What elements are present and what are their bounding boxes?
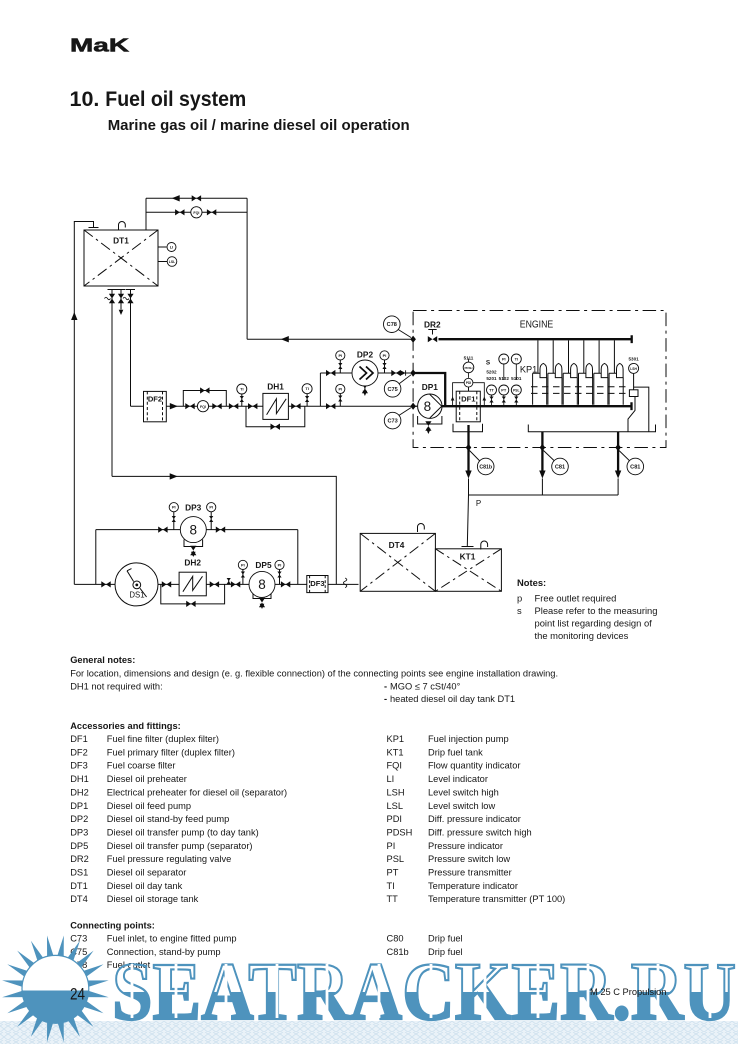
svg-text:DH2: DH2 [184,558,201,568]
svg-text:TI: TI [515,357,518,362]
svg-text:5201: 5201 [486,376,497,381]
svg-text:TI: TI [240,387,243,392]
svg-text:point list regarding design of: point list regarding design of [535,617,653,628]
svg-text:DH1 not required with:: DH1 not required with: [70,681,163,691]
svg-text:TI: TI [305,386,308,391]
svg-text:5101: 5101 [511,376,522,381]
svg-text:Diff. pressure indicator: Diff. pressure indicator [428,814,521,824]
svg-text:PI: PI [278,562,282,567]
svg-text:C81: C81 [630,465,640,471]
svg-text:DP1: DP1 [422,382,439,392]
svg-text:MaK: MaK [70,35,130,56]
svg-text:Temperature indicator: Temperature indicator [428,881,518,891]
svg-text:Drip fuel tank: Drip fuel tank [428,747,483,757]
svg-text:Fuel fine filter (duplex filte: Fuel fine filter (duplex filter) [107,734,219,744]
svg-text:-: - [384,694,387,704]
svg-text:TI: TI [387,881,395,891]
svg-text:C80: C80 [387,934,404,944]
svg-text:Diff. pressure switch high: Diff. pressure switch high [428,828,532,838]
svg-text:-: - [384,681,387,691]
svg-text:DP5: DP5 [70,841,88,851]
svg-text:PT: PT [387,868,399,878]
svg-text:C73: C73 [70,934,87,944]
svg-text:DT1: DT1 [70,881,88,891]
svg-text:PSL: PSL [387,854,405,864]
svg-text:ENGINE: ENGINE [520,320,554,331]
svg-text:Pressure transmitter: Pressure transmitter [428,868,512,878]
svg-text:DF1: DF1 [70,734,88,744]
svg-text:Connecting points:: Connecting points: [70,921,155,931]
svg-text:5102: 5102 [499,376,510,381]
svg-text:10.Fuel oil system: 10.Fuel oil system [70,87,247,111]
svg-text:Diesel oil transfer pump (sepa: Diesel oil transfer pump (separator) [107,841,253,851]
svg-text:8: 8 [258,577,266,592]
svg-text:DP1: DP1 [70,801,88,811]
svg-text:PI: PI [172,505,176,510]
svg-text:DT4: DT4 [389,540,405,550]
svg-text:Please refer to the measuring: Please refer to the measuring [535,605,658,616]
svg-text:M 25 C Propulsion: M 25 C Propulsion [590,987,666,997]
svg-text:DF2: DF2 [70,747,88,757]
svg-text:PI: PI [387,841,396,851]
svg-text:PDSH: PDSH [464,366,472,370]
svg-text:Accessories and fittings:: Accessories and fittings: [70,721,181,731]
svg-text:Fuel pressure regulating valve: Fuel pressure regulating valve [107,854,232,864]
svg-text:PDI: PDI [387,814,403,824]
svg-text:DR2: DR2 [424,320,441,330]
svg-text:LI: LI [170,245,173,250]
svg-text:Electrical preheater for diese: Electrical preheater for diesel oil (sep… [107,787,287,797]
svg-text:PI: PI [383,353,387,358]
svg-text:8: 8 [424,399,432,414]
svg-text:s: s [517,605,522,616]
svg-text:C75: C75 [387,387,397,393]
svg-text:Diesel oil stand-by feed pump: Diesel oil stand-by feed pump [107,814,229,824]
svg-text:DP3: DP3 [185,502,202,512]
svg-text:5111: 5111 [464,356,474,361]
svg-text:DP5: DP5 [255,560,272,570]
svg-text:C78: C78 [387,322,397,328]
svg-text:Pressure switch low: Pressure switch low [428,854,510,864]
svg-text:24: 24 [70,986,85,1004]
svg-text:Drip fuel: Drip fuel [428,934,463,944]
svg-text:DT4: DT4 [70,894,88,904]
svg-text:PSL: PSL [513,389,519,393]
svg-text:p: p [517,593,522,604]
svg-text:S: S [486,360,491,367]
svg-text:PT: PT [501,388,507,393]
svg-text:DF2: DF2 [148,395,162,404]
svg-text:LSH: LSH [387,787,405,797]
svg-text:8: 8 [190,522,198,537]
svg-text:Flow quantity indicator: Flow quantity indicator [428,761,521,771]
svg-text:DR2: DR2 [70,854,89,864]
svg-text:Fuel injection pump: Fuel injection pump [428,734,509,744]
svg-text:Pressure indicator: Pressure indicator [428,841,503,851]
svg-text:General notes:: General notes: [70,655,135,665]
svg-text:Fuel primary filter (duplex fi: Fuel primary filter (duplex filter) [107,747,235,757]
svg-text:heated diesel oil day tank DT1: heated diesel oil day tank DT1 [390,694,515,704]
svg-text:MGO ≤ 7 cSt/40°: MGO ≤ 7 cSt/40° [390,681,461,691]
svg-text:5301: 5301 [628,356,639,361]
svg-text:KT1: KT1 [387,747,404,757]
svg-text:LSL: LSL [387,801,404,811]
svg-text:DP2: DP2 [357,350,374,360]
svg-text:the monitoring devices: the monitoring devices [535,630,629,641]
svg-text:FQI: FQI [193,211,199,215]
svg-text:DF3: DF3 [70,761,88,771]
svg-text:FQI: FQI [200,405,206,409]
svg-text:DS1: DS1 [129,591,144,600]
svg-text:5202: 5202 [486,369,497,374]
svg-text:C73: C73 [387,419,397,425]
svg-text:Level switch high: Level switch high [428,787,499,797]
svg-text:DF1: DF1 [461,395,476,404]
svg-text:DS1: DS1 [70,868,88,878]
svg-text:TT: TT [489,388,494,393]
svg-text:PI: PI [338,387,342,392]
svg-text:Diesel oil day tank: Diesel oil day tank [107,881,183,891]
svg-text:Diesel oil preheater: Diesel oil preheater [107,774,187,784]
svg-text:PDSH: PDSH [387,828,413,838]
svg-text:Marine gas oil / marine diesel: Marine gas oil / marine diesel oil opera… [108,117,410,134]
svg-text:PDI: PDI [466,381,471,385]
svg-text:LSL: LSL [169,260,175,264]
svg-text:LI: LI [387,774,395,784]
svg-text:KP1: KP1 [520,365,537,375]
svg-text:For location, dimensions and d: For location, dimensions and design (e. … [70,668,558,678]
svg-text:Temperature transmitter (PT 10: Temperature transmitter (PT 100) [428,894,565,904]
svg-text:DP3: DP3 [70,828,88,838]
svg-text:DP2: DP2 [70,814,88,824]
svg-text:Level switch low: Level switch low [428,801,495,811]
svg-text:Diesel oil transfer pump (to d: Diesel oil transfer pump (to day tank) [107,828,259,838]
svg-text:DH2: DH2 [70,787,89,797]
svg-text:PI: PI [338,353,342,358]
svg-text:LSH: LSH [630,367,637,371]
svg-text:Level indicator: Level indicator [428,774,488,784]
svg-text:DH1: DH1 [70,774,89,784]
svg-text:Fuel inlet, to engine fitted p: Fuel inlet, to engine fitted pump [107,934,237,944]
svg-text:TT: TT [387,894,399,904]
svg-text:DH1: DH1 [267,382,284,392]
svg-text:Free outlet required: Free outlet required [535,593,617,604]
svg-text:PI: PI [241,562,245,567]
svg-text:Diesel oil storage tank: Diesel oil storage tank [107,894,199,904]
svg-text:DT1: DT1 [113,236,129,246]
svg-text:Fuel coarse filter: Fuel coarse filter [107,761,176,771]
svg-text:Notes:: Notes: [517,577,546,588]
svg-text:KT1: KT1 [460,552,476,562]
svg-text:P: P [476,499,481,508]
svg-text:Diesel oil feed pump: Diesel oil feed pump [107,801,191,811]
svg-text:Diesel oil separator: Diesel oil separator [107,868,187,878]
svg-text:FQI: FQI [387,761,403,771]
svg-text:C81: C81 [555,465,565,471]
svg-text:PI: PI [209,505,213,510]
svg-text:DF3: DF3 [310,579,324,588]
svg-text:C81b: C81b [479,465,492,471]
svg-text:PI: PI [502,357,506,362]
svg-text:KP1: KP1 [387,734,405,744]
